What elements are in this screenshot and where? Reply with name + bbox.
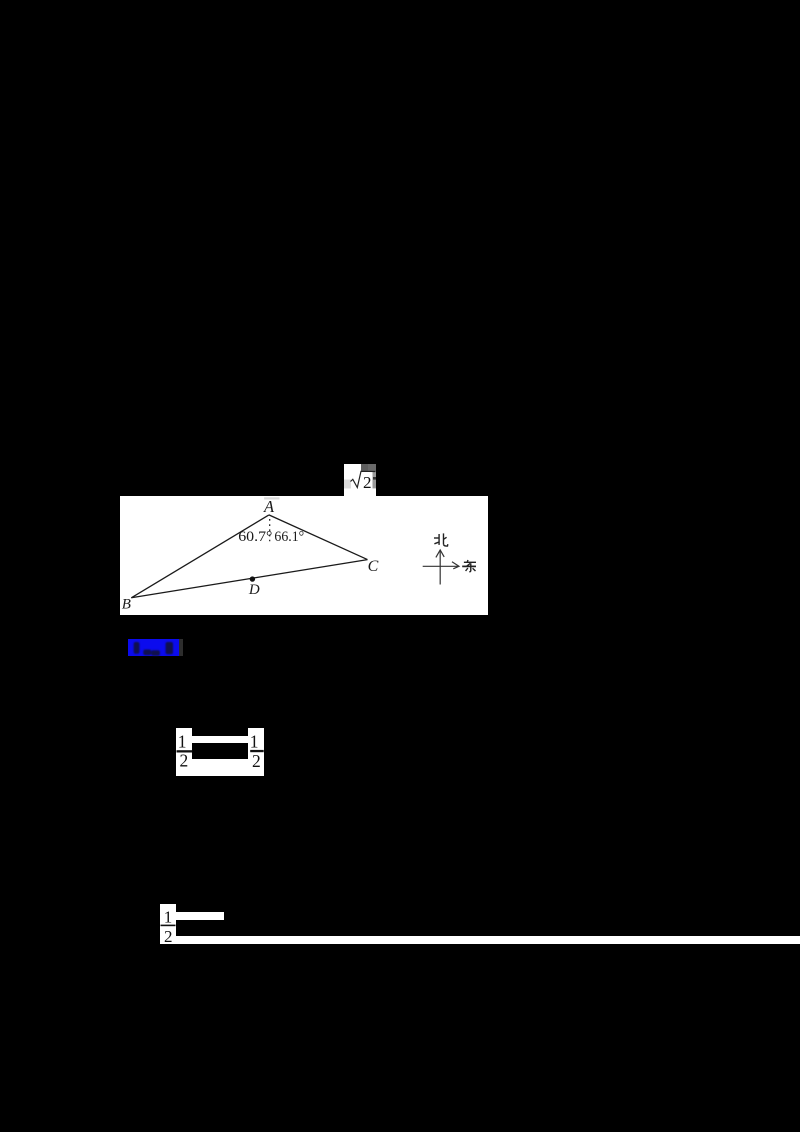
svg-text:C: C	[367, 557, 378, 574]
dark strip right of blue box	[179, 639, 184, 656]
fraction group 1: white block	[176, 728, 264, 776]
compass east arrowhead	[452, 561, 459, 568]
white band upper	[176, 912, 225, 920]
svg-text:2: 2	[164, 927, 173, 944]
gray artifact top	[361, 464, 376, 471]
black overlay center middle	[192, 743, 248, 759]
white band lower	[176, 936, 800, 944]
left fraction 1/2	[176, 728, 265, 777]
fraction 1/2	[160, 904, 176, 944]
dark tick right edge	[373, 477, 376, 480]
svg-text:A: A	[263, 496, 275, 515]
triangle side BC	[131, 559, 367, 597]
svg-text:1: 1	[164, 908, 173, 927]
radical sign	[351, 471, 376, 487]
triangle side AB	[131, 514, 269, 597]
fraction group 2: white column	[160, 904, 176, 944]
compass north line	[439, 550, 441, 583]
gray artifact left	[344, 480, 351, 489]
triangle side AC	[269, 514, 368, 559]
point D	[249, 576, 254, 581]
diagram white box	[120, 496, 488, 616]
black overlay top middle	[192, 728, 248, 736]
glyph bei (north)	[434, 533, 448, 546]
svg-text:D: D	[248, 581, 260, 597]
sqrt2 formula patch	[344, 464, 376, 496]
svg-text:66.1°: 66.1°	[274, 528, 304, 544]
faint gray dash above A	[264, 497, 279, 499]
svg-text:60.7°: 60.7°	[238, 528, 272, 544]
compass north arrowhead	[436, 549, 444, 556]
svg-text:2: 2	[252, 751, 261, 771]
gray artifact right	[373, 471, 377, 488]
svg-text:B: B	[121, 596, 130, 612]
glyph dong (east)	[462, 559, 476, 571]
svg-text:1: 1	[249, 731, 258, 751]
compass east line	[422, 565, 457, 567]
dashed altitude from A	[268, 518, 270, 540]
svg-text:2: 2	[179, 751, 188, 771]
svg-text:1: 1	[177, 731, 186, 751]
dark glyphs in blue box	[128, 639, 180, 656]
svg-text:2: 2	[363, 473, 372, 492]
blue highlight box	[128, 639, 179, 656]
